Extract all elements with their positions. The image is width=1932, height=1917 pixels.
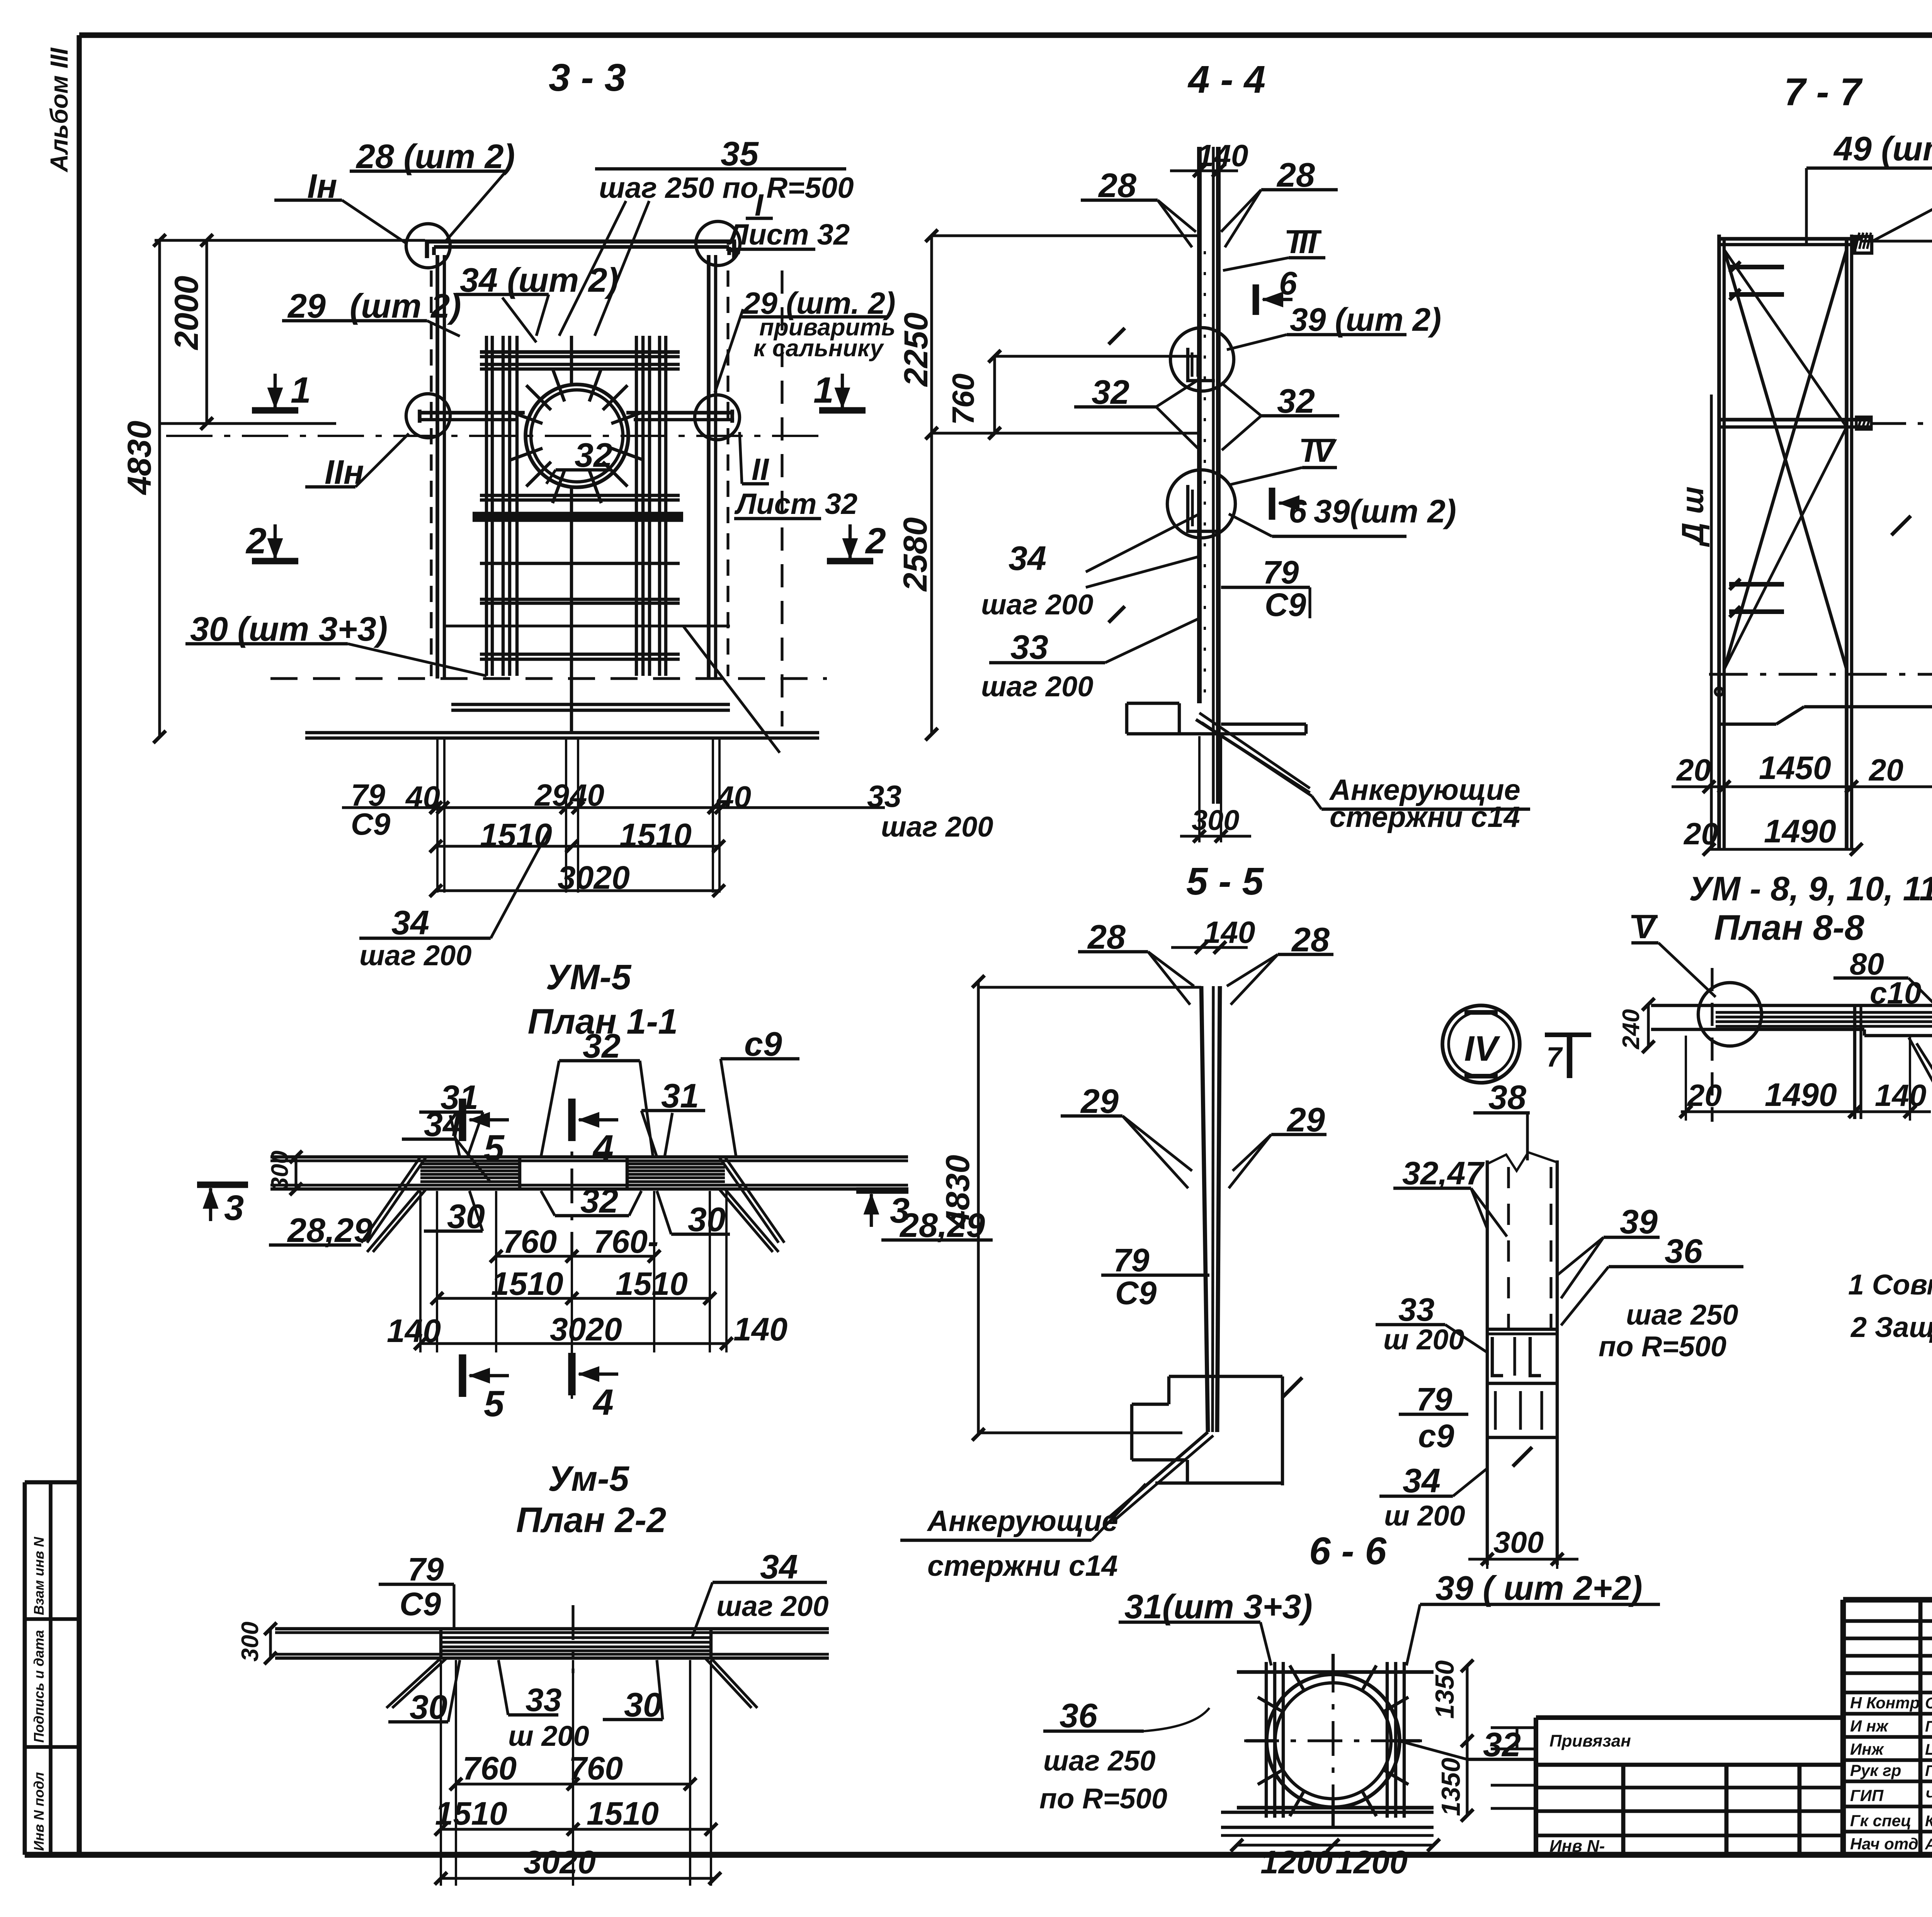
svg-text:шаг 250 по R=500: шаг 250 по R=500 bbox=[599, 172, 854, 204]
svg-text:ш 200: ш 200 bbox=[508, 1720, 589, 1752]
svg-text:II: II bbox=[752, 452, 769, 486]
svg-text:49 (шт 2+2): 49 (шт 2+2) bbox=[1833, 129, 1932, 168]
svg-text:36: 36 bbox=[1060, 1696, 1098, 1735]
svg-text:3: 3 bbox=[890, 1191, 910, 1230]
svg-text:1350: 1350 bbox=[1436, 1758, 1466, 1816]
svg-text:5: 5 bbox=[484, 1383, 505, 1424]
svg-text:140: 140 bbox=[1204, 915, 1255, 949]
svg-text:7 - 7: 7 - 7 bbox=[1784, 70, 1863, 114]
svg-text:Нач отд: Нач отд bbox=[1850, 1835, 1918, 1853]
svg-text:V: V bbox=[1634, 909, 1658, 945]
svg-text:Инв N подл: Инв N подл bbox=[31, 1772, 47, 1851]
svg-text:Анкерующие: Анкерующие bbox=[927, 1505, 1118, 1538]
svg-text:Н Контр: Н Контр bbox=[1850, 1694, 1920, 1712]
svg-text:1 Совместно с данным см: 1 Совместно с данным см лл КЖ-21,23, 24,… bbox=[1848, 1269, 1932, 1301]
svg-text:шаг 200: шаг 200 bbox=[881, 811, 993, 843]
svg-text:к сальнику: к сальнику bbox=[753, 335, 884, 362]
svg-text:140: 140 bbox=[387, 1313, 441, 1349]
svg-text:Семенова: Семенова bbox=[1925, 1695, 1932, 1712]
svg-text:6 - 6: 6 - 6 bbox=[1309, 1529, 1387, 1573]
svg-text:Взам инв N: Взам инв N bbox=[31, 1536, 47, 1615]
svg-text:1350: 1350 bbox=[1430, 1660, 1459, 1719]
svg-text:Лист 32: Лист 32 bbox=[726, 218, 850, 251]
svg-text:4: 4 bbox=[592, 1382, 614, 1423]
svg-text:6: 6 bbox=[1279, 265, 1298, 301]
svg-text:3020: 3020 bbox=[524, 1844, 596, 1880]
svg-text:300: 300 bbox=[237, 1622, 264, 1662]
svg-text:1510: 1510 bbox=[491, 1266, 563, 1302]
svg-text:IV: IV bbox=[1304, 432, 1337, 469]
svg-text:ГИП: ГИП bbox=[1850, 1786, 1884, 1805]
svg-text:Цветкова: Цветкова bbox=[1925, 1741, 1932, 1758]
svg-text:20: 20 bbox=[1868, 753, 1903, 787]
svg-text:Рук гр: Рук гр bbox=[1850, 1761, 1901, 1779]
svg-text:шаг 200: шаг 200 bbox=[981, 589, 1093, 621]
svg-text:2580: 2580 bbox=[897, 517, 934, 592]
svg-text:1510: 1510 bbox=[619, 817, 692, 853]
svg-text:Гк спец: Гк спец bbox=[1850, 1812, 1911, 1830]
svg-text:300: 300 bbox=[267, 1151, 293, 1191]
svg-text:40: 40 bbox=[716, 780, 751, 814]
svg-text:760: 760 bbox=[463, 1750, 517, 1786]
svg-text:2: 2 bbox=[865, 520, 886, 561]
svg-text:стержни с14: стержни с14 bbox=[927, 1550, 1118, 1582]
svg-text:1: 1 bbox=[813, 370, 834, 411]
svg-text:34: 34 bbox=[1403, 1461, 1440, 1500]
svg-text:760-: 760- bbox=[594, 1223, 658, 1260]
svg-text:4: 4 bbox=[592, 1128, 614, 1169]
svg-text:140: 140 bbox=[1875, 1078, 1926, 1112]
svg-text:240: 240 bbox=[1618, 1009, 1645, 1050]
svg-text:38: 38 bbox=[1488, 1078, 1526, 1116]
svg-text:3020: 3020 bbox=[558, 859, 630, 896]
svg-text:ш 200: ш 200 bbox=[1384, 1500, 1465, 1532]
svg-text:760: 760 bbox=[946, 374, 980, 425]
svg-text:5 - 5: 5 - 5 bbox=[1186, 860, 1264, 903]
svg-text:шаг 200: шаг 200 bbox=[359, 939, 471, 971]
svg-text:20: 20 bbox=[1676, 753, 1711, 787]
svg-text:шаг 250: шаг 250 bbox=[1626, 1299, 1738, 1331]
svg-text:Козловичер: Козловичер bbox=[1925, 1813, 1932, 1830]
svg-text:31(шт 3+3): 31(шт 3+3) bbox=[1124, 1587, 1313, 1626]
svg-text:Альбом III: Альбом III bbox=[45, 48, 73, 173]
svg-text:300: 300 bbox=[1493, 1525, 1544, 1559]
svg-text:2000: 2000 bbox=[168, 276, 205, 350]
svg-text:79: 79 bbox=[1416, 1381, 1452, 1417]
svg-text:1510: 1510 bbox=[587, 1795, 659, 1832]
svg-text:IV: IV bbox=[1464, 1029, 1501, 1068]
svg-text:33: 33 bbox=[1010, 628, 1048, 666]
svg-text:79: 79 bbox=[1263, 554, 1299, 590]
svg-text:36: 36 bbox=[1665, 1232, 1703, 1270]
svg-text:79: 79 bbox=[408, 1551, 444, 1587]
svg-text:шаг 250: шаг 250 bbox=[1043, 1745, 1155, 1777]
svg-text:4830: 4830 bbox=[939, 1155, 976, 1230]
svg-text:7: 7 bbox=[1546, 1042, 1563, 1073]
svg-text:III: III bbox=[1290, 224, 1318, 260]
svg-text:УМ - 8, 9, 10, 11: УМ - 8, 9, 10, 11 bbox=[1689, 869, 1932, 908]
svg-text:39 ( шт 2+2): 39 ( шт 2+2) bbox=[1435, 1569, 1643, 1607]
svg-text:1490: 1490 bbox=[1764, 813, 1836, 849]
svg-text:по R=500: по R=500 bbox=[1599, 1330, 1726, 1362]
svg-text:39(шт 2): 39(шт 2) bbox=[1314, 493, 1456, 529]
svg-text:С9: С9 bbox=[1265, 587, 1306, 623]
svg-text:Инв N-: Инв N- bbox=[1549, 1837, 1605, 1856]
svg-text:29: 29 bbox=[534, 778, 569, 812]
svg-text:с10: с10 bbox=[1870, 976, 1921, 1010]
svg-text:34: 34 bbox=[1009, 539, 1046, 577]
svg-text:33: 33 bbox=[526, 1682, 561, 1718]
svg-text:1510: 1510 bbox=[616, 1266, 688, 1302]
svg-text:Привязан: Привязан bbox=[1549, 1732, 1631, 1750]
svg-text:Лист 32: Лист 32 bbox=[734, 488, 857, 520]
svg-text:3 - 3: 3 - 3 bbox=[549, 56, 626, 99]
svg-text:760: 760 bbox=[569, 1750, 623, 1786]
svg-text:32,47: 32,47 bbox=[1402, 1155, 1485, 1191]
svg-text:34: 34 bbox=[391, 903, 429, 942]
svg-text:33: 33 bbox=[867, 779, 901, 813]
svg-text:40: 40 bbox=[569, 778, 604, 812]
svg-text:шаг 200: шаг 200 bbox=[716, 1590, 828, 1622]
svg-text:Чирков: Чирков bbox=[1925, 1788, 1932, 1805]
svg-text:Д ш: Д ш bbox=[1675, 486, 1710, 547]
svg-text:4830: 4830 bbox=[121, 421, 158, 495]
svg-text:1510: 1510 bbox=[435, 1795, 507, 1832]
svg-text:34: 34 bbox=[760, 1548, 798, 1586]
svg-text:2: 2 bbox=[245, 520, 267, 561]
svg-text:1510: 1510 bbox=[480, 817, 552, 853]
svg-text:3: 3 bbox=[224, 1188, 244, 1228]
svg-text:Петропавловская: Петропавловская bbox=[1925, 1718, 1932, 1735]
svg-text:1490: 1490 bbox=[1765, 1077, 1837, 1113]
svg-text:79: 79 bbox=[1113, 1242, 1150, 1278]
svg-text:шаг 200: шаг 200 bbox=[981, 670, 1093, 703]
svg-text:стержни с14: стержни с14 bbox=[1330, 801, 1520, 833]
svg-text:5: 5 bbox=[484, 1128, 505, 1169]
svg-text:140: 140 bbox=[733, 1311, 787, 1347]
svg-text:2 Защитный слой бетон: 2 Защитный слой бетона - 20мм bbox=[1850, 1311, 1932, 1343]
svg-text:С9: С9 bbox=[351, 807, 391, 841]
svg-text:План 8-8: План 8-8 bbox=[1714, 908, 1864, 947]
svg-text:3020: 3020 bbox=[550, 1311, 622, 1347]
svg-text:И нж: И нж bbox=[1850, 1717, 1889, 1735]
svg-text:40: 40 bbox=[405, 780, 440, 814]
svg-text:39: 39 bbox=[1620, 1203, 1658, 1241]
svg-text:с9: с9 bbox=[1418, 1418, 1454, 1454]
svg-text:С9: С9 bbox=[400, 1586, 441, 1622]
svg-text:2250: 2250 bbox=[898, 313, 935, 387]
svg-text:35: 35 bbox=[721, 134, 759, 173]
svg-text:Подпись и дата: Подпись и дата bbox=[31, 1630, 47, 1743]
svg-text:Гардуз: Гардуз bbox=[1925, 1762, 1932, 1779]
svg-text:С9: С9 bbox=[1115, 1275, 1157, 1311]
svg-text:Ум-5: Ум-5 bbox=[548, 1459, 630, 1499]
svg-text:План 2-2: План 2-2 bbox=[516, 1500, 667, 1540]
svg-text:УМ-5: УМ-5 bbox=[546, 958, 632, 997]
svg-text:6: 6 bbox=[1289, 493, 1307, 529]
svg-text:по R=500: по R=500 bbox=[1039, 1783, 1167, 1815]
svg-text:1200: 1200 bbox=[1335, 1844, 1408, 1880]
svg-text:4 - 4: 4 - 4 bbox=[1187, 58, 1265, 101]
svg-text:ш 200: ш 200 bbox=[1383, 1323, 1464, 1356]
svg-text:20: 20 bbox=[1683, 816, 1718, 851]
svg-text:Альтшулер: Альтшулер bbox=[1925, 1836, 1932, 1853]
svg-text:33: 33 bbox=[1398, 1291, 1434, 1328]
svg-text:1: 1 bbox=[291, 370, 311, 411]
svg-text:1200: 1200 bbox=[1260, 1844, 1333, 1880]
svg-text:1450: 1450 bbox=[1759, 750, 1831, 786]
svg-text:39 (шт 2): 39 (шт 2) bbox=[1290, 301, 1441, 338]
svg-text:20: 20 bbox=[1687, 1078, 1722, 1112]
svg-text:760: 760 bbox=[503, 1223, 557, 1260]
svg-text:Инж: Инж bbox=[1850, 1740, 1884, 1758]
